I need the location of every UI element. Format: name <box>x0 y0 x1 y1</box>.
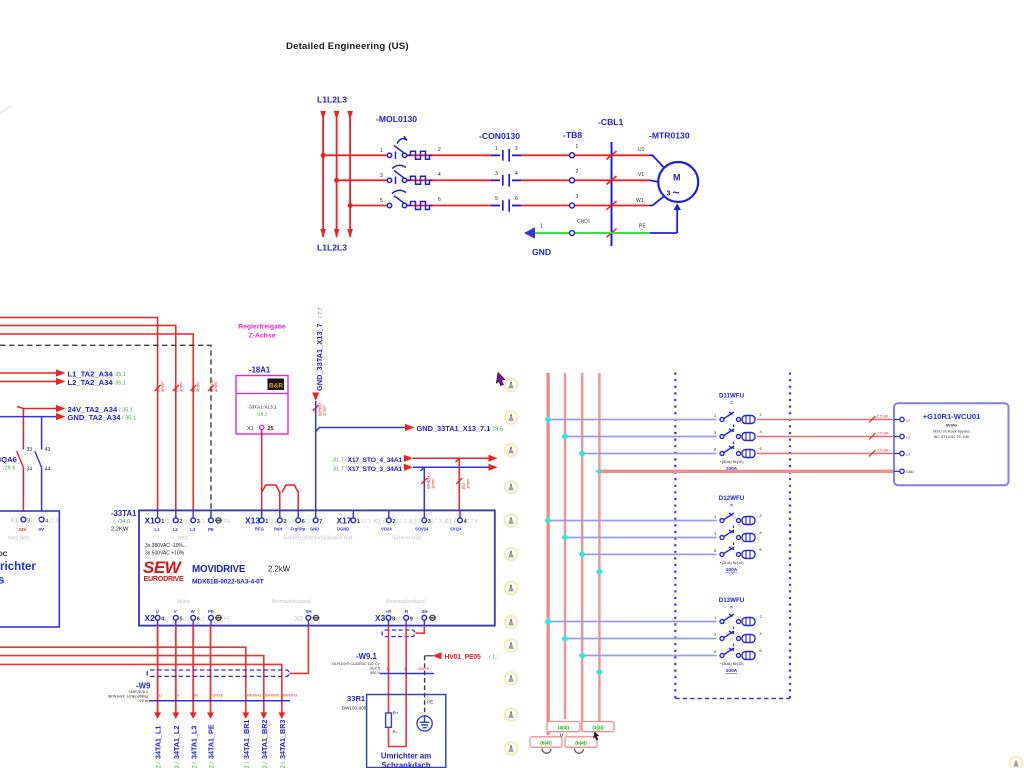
wire L2 feed top <box>0 326 176 511</box>
overload relay MOL0130 pole 1 <box>387 136 432 159</box>
cable CBL1 line <box>611 142 613 246</box>
svg-text:RFG: RFG <box>255 527 264 532</box>
svg-text:L1: L1 <box>906 418 910 422</box>
junction dot (cyan) bus3 group2 <box>578 551 586 559</box>
breaker D13WFU pole 1 <box>720 614 755 626</box>
svg-text:17.4: 17.4 <box>467 519 478 525</box>
resistor 33R1 box <box>367 695 446 768</box>
pin WCU01 GND <box>894 469 914 474</box>
drive MOVIDRIVE box <box>139 510 495 625</box>
annotation icon 2 <box>505 411 518 424</box>
terminal X2:PE <box>210 620 212 626</box>
terminal X2:6 <box>192 620 194 626</box>
svg-text:/34.0: /34.0 <box>118 519 130 525</box>
svg-text:35.2 /: 35.2 / <box>175 762 181 768</box>
svg-text:SH: SH <box>306 609 312 614</box>
svg-text:+R: +R <box>386 609 393 614</box>
wire L2 vertical bus <box>336 112 338 237</box>
controller 18A1 B&R logo <box>268 379 285 391</box>
wire D11WFU:2 to WCU01 L1 <box>757 419 895 421</box>
net HV01_PE05 stub <box>425 655 434 657</box>
svg-text:Sicherer Halt: Sicherer Halt <box>392 536 422 542</box>
svg-text:Detailed Engineering (US): Detailed Engineering (US) <box>286 41 409 52</box>
arrow L1_TA2_A34 <box>56 369 66 376</box>
svg-text:6: 6 <box>515 196 518 202</box>
svg-text:35.2 /: 35.2 / <box>281 762 287 768</box>
svg-text:(1.3: (1.3 <box>31 519 40 525</box>
cable marker slash phase2 <box>607 176 617 185</box>
terminal X1:4 (left box) <box>39 517 44 522</box>
svg-text:3x 500VAC +10%: 3x 500VAC +10% <box>145 551 185 557</box>
svg-text:(3: (3 <box>396 617 401 623</box>
svg-text:BKWH3: BKWH3 <box>283 693 298 698</box>
svg-text:34TA1_BR2: 34TA1_BR2 <box>260 720 269 759</box>
net label 34TA1_BR1 vertical <box>242 720 251 768</box>
svg-text:1.1: 1.1 <box>404 676 409 680</box>
PE symbol X1 <box>215 518 231 525</box>
svg-text:MDX61B-0022-5A3-4-0T: MDX61B-0022-5A3-4-0T <box>192 579 264 586</box>
svg-text:Schrankdach: Schrankdach <box>382 761 431 768</box>
svg-text:-CBL1: -CBL1 <box>598 117 624 127</box>
svg-text:100A: 100A <box>726 668 738 674</box>
terminal X13:1 <box>261 510 263 518</box>
net GND_TA2_A34 wire <box>0 417 57 519</box>
cable marker label BK 4mm2 (L1) <box>156 381 166 392</box>
svg-text:V1: V1 <box>638 172 644 178</box>
cable marker label WHBU 1mm2 (X17:3) <box>426 476 436 489</box>
svg-text:-18A1: -18A1 <box>249 366 271 375</box>
svg-text:Netz Netz: Netz Netz <box>8 536 30 542</box>
svg-text:/ 35.1: / 35.1 <box>112 381 126 387</box>
svg-text:8V90x: 8V90x <box>946 423 958 428</box>
wire L1 feed top <box>0 318 158 511</box>
net label 34TA1_L2 vertical <box>172 726 181 768</box>
terminal X1:2 <box>175 510 177 518</box>
cable marker slash PE <box>607 229 617 238</box>
wire D13WFU pole3 feed <box>582 655 716 657</box>
junction dot (cyan) bus3 group1 <box>578 450 586 458</box>
terminal X2:4 <box>157 620 159 626</box>
mechanical link dashes <box>733 627 735 635</box>
svg-text:(3(4)): (3(4)) <box>558 725 570 730</box>
terminal X17:3 <box>423 510 425 518</box>
svg-text:DGND: DGND <box>337 527 349 532</box>
cable W9 capsule <box>147 670 289 676</box>
svg-text:34: 34 <box>27 467 33 473</box>
mechanical link dashes <box>733 543 735 551</box>
breaker D12WFU pole 2 <box>720 530 755 542</box>
svg-text:X1: X1 <box>145 516 156 526</box>
cable marker slash L3 <box>190 385 196 391</box>
svg-text:500 V: 500 V <box>370 671 380 675</box>
pin WCU01 L3 <box>894 451 910 456</box>
arrow L2 top <box>334 111 340 120</box>
arrow X17_STO_3 page ref <box>489 464 498 471</box>
junction dot phase1 <box>321 153 326 158</box>
arrow L1 bottom <box>320 229 326 238</box>
terminal strip box A <box>547 722 580 732</box>
svg-text:HV01_PE05: HV01_PE05 <box>445 654 481 661</box>
svg-text:W1: W1 <box>636 198 644 204</box>
contactor CON0130 pole 1 <box>491 149 521 162</box>
mechanical link dashes <box>733 425 735 433</box>
svg-text:8x7 STL/240 TE 1/4k: 8x7 STL/240 TE 1/4k <box>934 435 970 439</box>
net label 34TA1_L1 vertical <box>154 726 163 768</box>
svg-text:-33TA1:X13:1: -33TA1:X13:1 <box>247 405 277 411</box>
svg-text:R+: R+ <box>393 711 399 716</box>
svg-text:3: 3 <box>576 194 579 200</box>
svg-text:=: = <box>730 605 733 611</box>
svg-text:X17: X17 <box>444 519 457 526</box>
cable marker label BK 4mm2 (L2) <box>174 381 184 392</box>
svg-text:Umrichter am: Umrichter am <box>381 752 431 761</box>
terminal X13:6 <box>297 510 299 518</box>
svg-text:31.7 /: 31.7 / <box>333 457 347 463</box>
controller 18A1 box <box>236 376 288 435</box>
svg-text:PE: PE <box>224 519 232 525</box>
wire D11WFU:6 to WCU01 L3 <box>757 453 895 455</box>
svg-text:/ 29.5: / 29.5 <box>489 426 503 432</box>
wire L3 feed top <box>0 334 193 510</box>
overload relay MOL0130 pole 2 <box>387 165 432 184</box>
svg-text:X17_STO_4_34A1: X17_STO_4_34A1 <box>347 457 402 464</box>
junction dot (cyan) bus2 group2 <box>561 534 569 542</box>
arrow X17_STO_4 right of text <box>404 455 413 462</box>
svg-text:D12WFU: D12WFU <box>719 495 745 502</box>
jumper X13:2-X13:6 <box>282 485 298 518</box>
junction dot phase3 <box>348 203 353 208</box>
junction dot (cyan) bus1 group1 <box>544 416 552 424</box>
cable marker slash phase1 <box>607 151 617 160</box>
terminal X17:4 <box>459 510 461 518</box>
terminal TB8:3 <box>570 203 575 208</box>
arrow motor PE up <box>673 204 681 211</box>
svg-text:3: 3 <box>495 171 498 177</box>
svg-text:=: = <box>730 401 733 407</box>
cable marker slash L2 (right) <box>869 433 876 440</box>
cable marker slash PE <box>208 385 214 391</box>
svg-text:(13: (13 <box>269 519 277 525</box>
breaker D12WFU pole 1 <box>720 513 755 525</box>
svg-text:1: 1 <box>576 144 579 150</box>
wire BR3 feed <box>0 664 282 712</box>
svg-text:-MOL0130: -MOL0130 <box>376 114 417 124</box>
arrow GND_TA2_A34 <box>56 413 66 420</box>
svg-text:34TA1_L1: 34TA1_L1 <box>154 726 163 759</box>
wire branch GND_33TA1_X13_7.1 <box>316 428 406 432</box>
wire GND green <box>533 232 650 234</box>
cable marker slash X17:3 <box>421 478 427 484</box>
svg-text:1: 1 <box>495 146 498 152</box>
wire shield W9 to X3mid SH <box>289 626 308 674</box>
resistor element R <box>386 713 392 727</box>
svg-text:L1L2L3: L1L2L3 <box>317 95 347 105</box>
svg-text:(13: (13 <box>287 519 295 525</box>
wire D11WFU pole1 feed <box>548 419 716 421</box>
annotation icon 4 <box>505 481 518 494</box>
svg-text:GND: GND <box>310 527 319 532</box>
terminal X3:SH <box>423 620 425 626</box>
svg-text:Bremswiderstand: Bremswiderstand <box>386 599 425 605</box>
svg-text:Bremswiderstand: Bremswiderstand <box>272 599 311 605</box>
arrow HV01_PE05 <box>433 652 442 659</box>
svg-text:17.2: 17.2 <box>396 519 407 525</box>
cable marker slash phase3 <box>607 201 617 210</box>
svg-text:SH: SH <box>422 609 428 614</box>
svg-text:VO24: VO24 <box>381 527 392 532</box>
arrow 34TA1_BR1 <box>242 712 249 719</box>
terminal TB8 GND <box>570 231 575 236</box>
wire U1 to motor <box>650 155 665 168</box>
wire X17:3 branch <box>421 467 425 518</box>
svg-text:X17_STO_3_34A1: X17_STO_3_34A1 <box>347 466 402 473</box>
svg-text:1: 1 <box>540 224 543 230</box>
svg-text:5: 5 <box>495 196 498 202</box>
svg-text:4mm²: 4mm² <box>196 381 201 392</box>
svg-text:X3: X3 <box>295 616 304 623</box>
svg-text:=: = <box>730 503 733 509</box>
svg-text:4: 4 <box>438 172 441 178</box>
junction dot (cyan) bus1 group2 <box>544 517 552 525</box>
svg-text:V: V <box>177 693 180 698</box>
net L2_TA2_A34 wire <box>0 381 57 383</box>
power bus 4 (pink) <box>598 373 600 721</box>
svg-text:X17: X17 <box>337 516 352 526</box>
terminal X17:1 <box>352 510 354 518</box>
svg-text:PE: PE <box>208 609 214 614</box>
svg-text:/ 35.1: / 35.1 <box>119 408 133 414</box>
svg-text:R-: R- <box>393 730 398 735</box>
arrow L3 top <box>347 111 353 120</box>
svg-text:2,5 BK: 2,5 BK <box>877 449 889 453</box>
wire BR2 feed <box>0 656 264 713</box>
svg-text:/29.6: /29.6 <box>3 466 15 472</box>
svg-text:1mm²: 1mm² <box>466 478 471 489</box>
terminal TB8:2 <box>570 178 575 183</box>
svg-text:DC: DC <box>0 551 8 558</box>
cable marker slash (WHBU) <box>313 405 319 411</box>
svg-text:+4AT2E/5.2: +4AT2E/5.2 <box>128 690 148 694</box>
wire GND bus to WCU01 (thick salmon) <box>599 470 896 473</box>
contactor CON0130 pole 2 <box>491 174 521 187</box>
breaker D11WFU pole 3 <box>720 446 755 458</box>
arrow GND_33TA1_X13_7.1 <box>405 424 415 431</box>
terminal strip box C <box>530 737 562 748</box>
svg-text:GND: GND <box>532 247 551 257</box>
net label 34TA1_PE vertical <box>207 724 216 768</box>
svg-text:SichererStillstandStillstand H: SichererStillstandStillstand Halt <box>283 536 353 542</box>
enclosure dotted border left <box>674 373 676 699</box>
mechanical link dashes <box>733 526 735 534</box>
cable marker slash L1 (right) <box>869 416 876 423</box>
mechanical link dashes <box>733 644 735 652</box>
wire X17_STO_4 <box>413 457 489 459</box>
cable marker slash L2 <box>173 385 179 391</box>
wire X17_STO_3 <box>413 466 489 468</box>
arrow 34TA1_L2 <box>172 712 179 719</box>
breaker D11WFU pole 1 <box>720 412 755 424</box>
svg-text:GND_TA2_A34: GND_TA2_A34 <box>68 413 122 422</box>
arrow X17_STO_3 right of text <box>404 464 413 471</box>
svg-text:X17: X17 <box>409 519 422 526</box>
cable marker label GNYE 4mm2 <box>209 380 219 392</box>
svg-text:2: 2 <box>515 146 518 152</box>
svg-text:/ 35.1: / 35.1 <box>122 416 136 422</box>
svg-text:(1.4: (1.4 <box>49 519 58 525</box>
svg-text:-CON0130: -CON0130 <box>479 131 520 141</box>
svg-text:35.2 /: 35.2 / <box>157 762 163 768</box>
wire D13WFU pole1 feed <box>548 621 716 623</box>
terminal X3mid:SH <box>307 620 309 626</box>
svg-text:L1: L1 <box>155 527 161 532</box>
arrow 24V_TA2_A34 <box>56 405 66 412</box>
mouse cursor (purple) <box>496 373 505 386</box>
wire D11WFU pole3 feed <box>582 453 716 455</box>
wire D11WFU:4 to WCU01 L2 <box>757 436 895 438</box>
controller 18A1 pin circle <box>260 425 264 429</box>
arrow 34TA1_BR2 <box>260 712 267 719</box>
svg-text:PE: PE <box>208 527 214 532</box>
svg-text:SVI24: SVI24 <box>450 527 462 532</box>
svg-text:31.7 /: 31.7 / <box>333 466 347 472</box>
annotation icon 9 <box>505 639 518 652</box>
svg-text:-MTR0130: -MTR0130 <box>649 131 690 141</box>
svg-text:3G2,5: 3G2,5 <box>370 667 380 671</box>
svg-text:+(3UA) Nr(10): +(3UA) Nr(10) <box>720 561 745 565</box>
svg-text:100A: 100A <box>726 567 738 573</box>
arrow GND_33TA1_X13_7 down <box>312 393 319 402</box>
svg-text:34TA1_PE: 34TA1_PE <box>207 724 216 759</box>
svg-text:X2: X2 <box>145 613 156 623</box>
wire phase2 horizontal <box>337 179 650 181</box>
svg-text:SEW konf. schleppfähig: SEW konf. schleppfähig <box>108 695 148 699</box>
terminal TB8:1 <box>570 153 575 158</box>
junction dot (cyan) bus4 group3 <box>596 668 604 676</box>
junction dot (cyan) bus2 group1 <box>561 433 569 441</box>
cable marker slash L1 <box>155 385 161 391</box>
arrow 34TA1_BR3 <box>278 712 285 719</box>
svg-text:BKWH2: BKWH2 <box>265 693 280 698</box>
svg-text:4: 4 <box>515 171 518 177</box>
junction dot (cyan) bus2 group3 <box>561 635 569 643</box>
PE symbol X2 <box>215 615 231 622</box>
svg-text:7: 7 <box>319 519 322 525</box>
net 24V_TA2_A34 wire <box>17 407 57 520</box>
pin WCU01 L1 <box>894 417 910 422</box>
wire phase3 horizontal <box>350 205 649 207</box>
svg-text:3x 380VAC -10%...: 3x 380VAC -10%... <box>145 543 187 549</box>
svg-text:1: 1 <box>380 148 383 154</box>
svg-text:Z-Achse: Z-Achse <box>249 333 276 340</box>
svg-text:0V: 0V <box>39 527 44 532</box>
svg-text:/ 7.7: / 7.7 <box>318 308 324 319</box>
svg-text:-W9.1: -W9.1 <box>356 652 377 661</box>
svg-text:PE: PE <box>427 700 433 705</box>
svg-text:-TB8: -TB8 <box>563 130 582 140</box>
power bus 1 (pink) <box>546 373 549 735</box>
svg-text:(1(4)): (1(4)) <box>592 725 604 730</box>
wire GND_33TA1_X13_7 vertical <box>315 401 317 518</box>
junction dot (cyan) bus4 group2 <box>596 568 604 576</box>
annotation icon 10 <box>505 672 518 685</box>
svg-text:D13WFU: D13WFU <box>719 597 745 604</box>
svg-text:U: U <box>159 693 162 698</box>
svg-text:4mm²: 4mm² <box>160 381 165 392</box>
wire D12WFU pole2 feed <box>565 537 717 539</box>
terminal X3:9 <box>405 620 407 626</box>
PE symbol X3 right <box>429 615 436 620</box>
wire X3:9 to resistor return <box>389 626 407 747</box>
PE symbol X3 mid <box>312 615 319 620</box>
annotation icon bottom-right <box>1010 757 1023 768</box>
wire D13WFU pole2 feed <box>565 638 717 640</box>
wire D12WFU pole3 feed <box>582 553 716 555</box>
svg-text:BW100-005: BW100-005 <box>342 706 367 711</box>
svg-text:5: 5 <box>380 198 383 204</box>
wire motor PE <box>650 206 677 233</box>
annotation icon 8 <box>505 616 518 629</box>
svg-text:GNYE: GNYE <box>418 666 430 671</box>
svg-text:1mm²: 1mm² <box>431 478 436 489</box>
svg-text:20 m: 20 m <box>140 699 148 703</box>
svg-text:34TA1_L2: 34TA1_L2 <box>172 726 181 759</box>
svg-text:Umrichter: Umrichter <box>0 561 36 573</box>
svg-text:17.3: 17.3 <box>431 519 442 525</box>
arrow L2 bottom <box>334 229 340 238</box>
arrow 34TA1_L1 <box>154 712 161 719</box>
wire X3 SH to shield <box>416 626 425 634</box>
junction dot (cyan) bus3 group3 <box>578 652 586 660</box>
power bus 3 (pink) <box>581 373 583 731</box>
cable marker label BU 1mm2 (X17:4) <box>461 478 471 489</box>
terminal X1:3 (left box) <box>21 517 26 522</box>
cable marker slash L3 (right) <box>869 450 876 457</box>
arrow L2_TA2_A34 <box>56 378 66 385</box>
arrow 34TA1_L3 <box>190 712 197 719</box>
svg-text:35.2 /: 35.2 / <box>263 762 269 768</box>
PE earth circle symbol <box>417 716 432 731</box>
breaker D13WFU pole 3 <box>720 648 755 660</box>
svg-text:(b(4)): (b(4)) <box>540 741 552 746</box>
mechanical link dashes <box>733 442 735 450</box>
svg-text:Motor: Motor <box>177 599 190 605</box>
arrow GND source <box>524 227 535 239</box>
wire X3:8 to resistor <box>388 626 390 713</box>
wire L1 vertical bus <box>322 112 324 237</box>
svg-text:2: 2 <box>576 169 579 175</box>
net label 34TA1_BR3 vertical <box>278 720 287 768</box>
svg-text:GNYE: GNYE <box>212 693 224 698</box>
terminal X2:5 <box>175 620 177 626</box>
svg-text:2,5 BK: 2,5 BK <box>877 432 889 436</box>
wire phase1 horizontal <box>323 154 649 156</box>
svg-text:35.2 /: 35.2 / <box>210 762 216 768</box>
controller 18A1 divider <box>236 393 288 395</box>
power bus 2 (pink) <box>564 373 566 719</box>
svg-text:2,2kW: 2,2kW <box>268 565 291 574</box>
svg-text:ReH: ReH <box>274 527 282 532</box>
wire D11WFU pole2 feed <box>565 436 717 438</box>
svg-text:(13: (13 <box>305 519 313 525</box>
svg-text:GND_33TA1_X13_7.1: GND_33TA1_X13_7.1 <box>417 424 491 433</box>
net L1_TA2_A34 wire <box>0 372 57 374</box>
wire PE dashed to 33R1 <box>424 656 426 716</box>
svg-text:MOVIDRIVE: MOVIDRIVE <box>192 564 246 575</box>
svg-text:4mm²: 4mm² <box>178 381 183 392</box>
wire D12WFU pole1 feed <box>548 520 716 522</box>
svg-text:(b(4)): (b(4)) <box>575 741 587 746</box>
svg-text:EURODRIVE: EURODRIVE <box>144 574 185 583</box>
